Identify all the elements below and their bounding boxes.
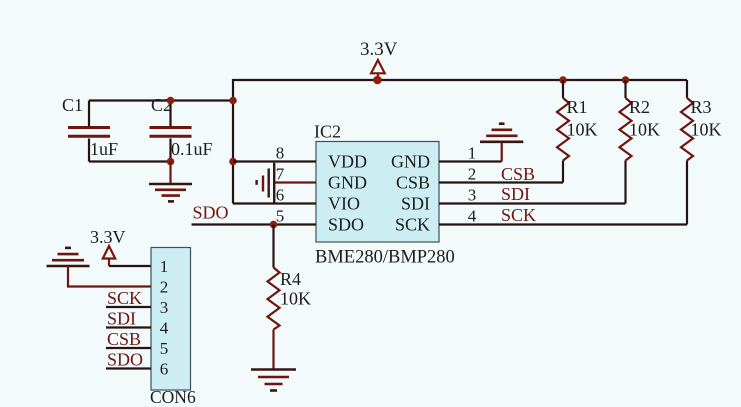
junction dot C2 top	[167, 97, 175, 105]
wire pin 1 GND	[439, 160, 502, 162]
svg-text:CSB: CSB	[501, 164, 535, 184]
wire C1 bottom lead	[88, 139, 90, 162]
wire CON6 pin 3 SCK	[106, 306, 151, 308]
capacitor C1 plates	[68, 128, 110, 137]
svg-text:5: 5	[276, 207, 285, 226]
svg-text:SDI: SDI	[107, 309, 136, 329]
svg-text:7: 7	[276, 165, 285, 184]
svg-text:VIO: VIO	[328, 194, 360, 214]
wire 3.3V top bus	[233, 79, 687, 81]
svg-text:3: 3	[160, 298, 169, 317]
svg-text:10K: 10K	[567, 120, 598, 140]
junction dot VDD tap	[229, 158, 237, 166]
ground below R4	[251, 370, 296, 391]
wire pin 7 GND	[274, 181, 316, 183]
wire C2 top lead	[169, 101, 171, 128]
resistor R1	[557, 80, 569, 183]
svg-text:10K: 10K	[629, 120, 660, 140]
ground left of CON6 (inverted)	[47, 248, 90, 266]
svg-text:R3: R3	[691, 97, 712, 117]
op-amp IC2 box	[316, 142, 439, 243]
svg-text:R2: R2	[629, 97, 650, 117]
svg-text:3: 3	[468, 186, 477, 205]
svg-text:10K: 10K	[280, 289, 311, 309]
svg-text:BME280/BMP280: BME280/BMP280	[315, 248, 455, 268]
resistor R3	[681, 80, 693, 225]
svg-text:GND: GND	[391, 152, 430, 172]
svg-text:CSB: CSB	[107, 329, 141, 349]
svg-text:5: 5	[160, 339, 169, 358]
wire C1 top lead	[88, 101, 90, 128]
connector CON6 box	[151, 248, 191, 391]
svg-text:SDO: SDO	[193, 203, 229, 223]
svg-text:SCK: SCK	[107, 288, 142, 308]
svg-text:0.1uF: 0.1uF	[171, 139, 213, 159]
junction dot C2 bottom	[167, 158, 175, 166]
wire CON6 ground stem	[68, 266, 151, 287]
wire pin1 ground stem	[501, 142, 503, 162]
resistor R4	[268, 225, 280, 369]
ground below C2	[149, 184, 192, 201]
svg-text:4: 4	[160, 319, 169, 338]
svg-text:2: 2	[468, 165, 477, 184]
svg-text:6: 6	[160, 360, 169, 379]
svg-text:1: 1	[160, 257, 169, 276]
wire pin 5 SDO	[192, 223, 317, 225]
power 3.3V arrow CON6	[103, 246, 115, 266]
resistor R2	[620, 80, 632, 204]
power 3.3V arrow top	[371, 60, 385, 79]
svg-text:10K: 10K	[691, 120, 722, 140]
junction dot R1 top	[559, 76, 567, 84]
wire CON6 pin 5 CSB	[106, 347, 151, 349]
svg-text:SCK: SCK	[395, 215, 430, 235]
svg-text:3.3V: 3.3V	[90, 227, 126, 247]
svg-text:GND: GND	[328, 173, 367, 193]
wire CON6 pin 1	[109, 265, 151, 267]
wire C2 bottom lead	[169, 139, 171, 162]
wire CON6 pin 6 SDO	[106, 367, 151, 369]
svg-text:CSB: CSB	[396, 173, 430, 193]
wire pin 2 CSB net	[439, 181, 563, 183]
svg-text:2: 2	[160, 278, 169, 297]
svg-text:1: 1	[468, 144, 477, 163]
wire capacitor top bus	[89, 99, 233, 101]
junction dot 3.3V bus	[373, 76, 382, 85]
svg-text:1uF: 1uF	[90, 139, 118, 159]
svg-text:C1: C1	[62, 95, 83, 115]
junction dot cap bus to vertical	[229, 97, 237, 105]
svg-text:CON6: CON6	[150, 387, 196, 407]
svg-text:SCK: SCK	[501, 205, 536, 225]
svg-text:SDI: SDI	[401, 194, 430, 214]
svg-text:SDO: SDO	[328, 215, 364, 235]
svg-text:3.3V: 3.3V	[360, 39, 398, 60]
svg-text:8: 8	[276, 144, 285, 163]
wire pin 8 VDD	[233, 160, 316, 162]
wire pin 6 VIO	[233, 202, 316, 204]
wire pin 3 SDI net	[439, 202, 626, 204]
svg-text:R4: R4	[280, 269, 301, 289]
wire CON6 pin 4 SDI	[106, 326, 151, 328]
svg-text:IC2: IC2	[314, 122, 341, 142]
wire main vertical 3.3V feed	[232, 79, 234, 204]
junction dot SDO / R4	[270, 221, 278, 229]
svg-text:SDO: SDO	[107, 350, 143, 370]
wire pin 4 SCK net	[439, 223, 687, 225]
junction dot R2 top	[622, 76, 630, 84]
svg-text:VDD: VDD	[328, 152, 367, 172]
wire C2 ground stem	[169, 162, 171, 184]
svg-text:6: 6	[276, 186, 285, 205]
ground at pin 7 (sideways)	[257, 163, 275, 203]
wire capacitor bottom bus	[89, 160, 171, 162]
capacitor C2 plates	[150, 128, 192, 137]
svg-text:SDI: SDI	[501, 184, 530, 204]
ground at pin 1 (inverted)	[480, 124, 523, 142]
svg-text:4: 4	[468, 207, 477, 226]
svg-text:R1: R1	[567, 97, 588, 117]
